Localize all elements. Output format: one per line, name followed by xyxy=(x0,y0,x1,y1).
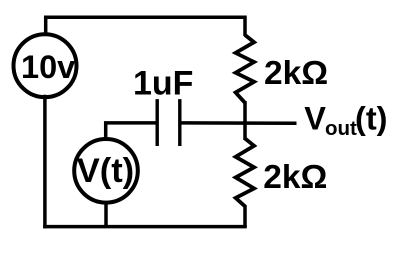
svg-text:10v: 10v xyxy=(21,49,75,85)
voltage source V1 (10v) xyxy=(14,34,77,97)
resistor R2 (bottom 2k) zigzag xyxy=(236,139,255,207)
svg-text:V: V xyxy=(304,100,326,136)
wire left (V1 bottom to bottom-left corner) xyxy=(43,97,47,227)
svg-text:(t): (t) xyxy=(355,100,387,136)
svg-text:1uF: 1uF xyxy=(133,64,193,102)
wire from capacitor left plate to V(t) source top xyxy=(106,123,156,138)
wire middle vertical (R1 bottom through Vout node to R2 top) xyxy=(243,101,247,140)
svg-text:2kΩ: 2kΩ xyxy=(264,55,328,92)
svg-text:out: out xyxy=(325,117,357,140)
voltage source V2 (V(t)) xyxy=(74,139,138,203)
node Vout junction xyxy=(243,121,247,125)
capacitor C1 plates xyxy=(157,99,180,146)
svg-text:2kΩ: 2kΩ xyxy=(263,159,327,196)
resistor R1 (top 2k) zigzag xyxy=(236,35,255,103)
wire V2 bottom stub xyxy=(104,202,108,228)
wire R2 bottom to bottom wire xyxy=(243,205,247,228)
wire output (capacitor right plate through node to Vout lead) xyxy=(182,121,297,125)
svg-text:V(t): V(t) xyxy=(77,152,134,190)
wire top (from above 10v source to top of R1) xyxy=(46,17,245,36)
wire bottom xyxy=(45,225,245,229)
